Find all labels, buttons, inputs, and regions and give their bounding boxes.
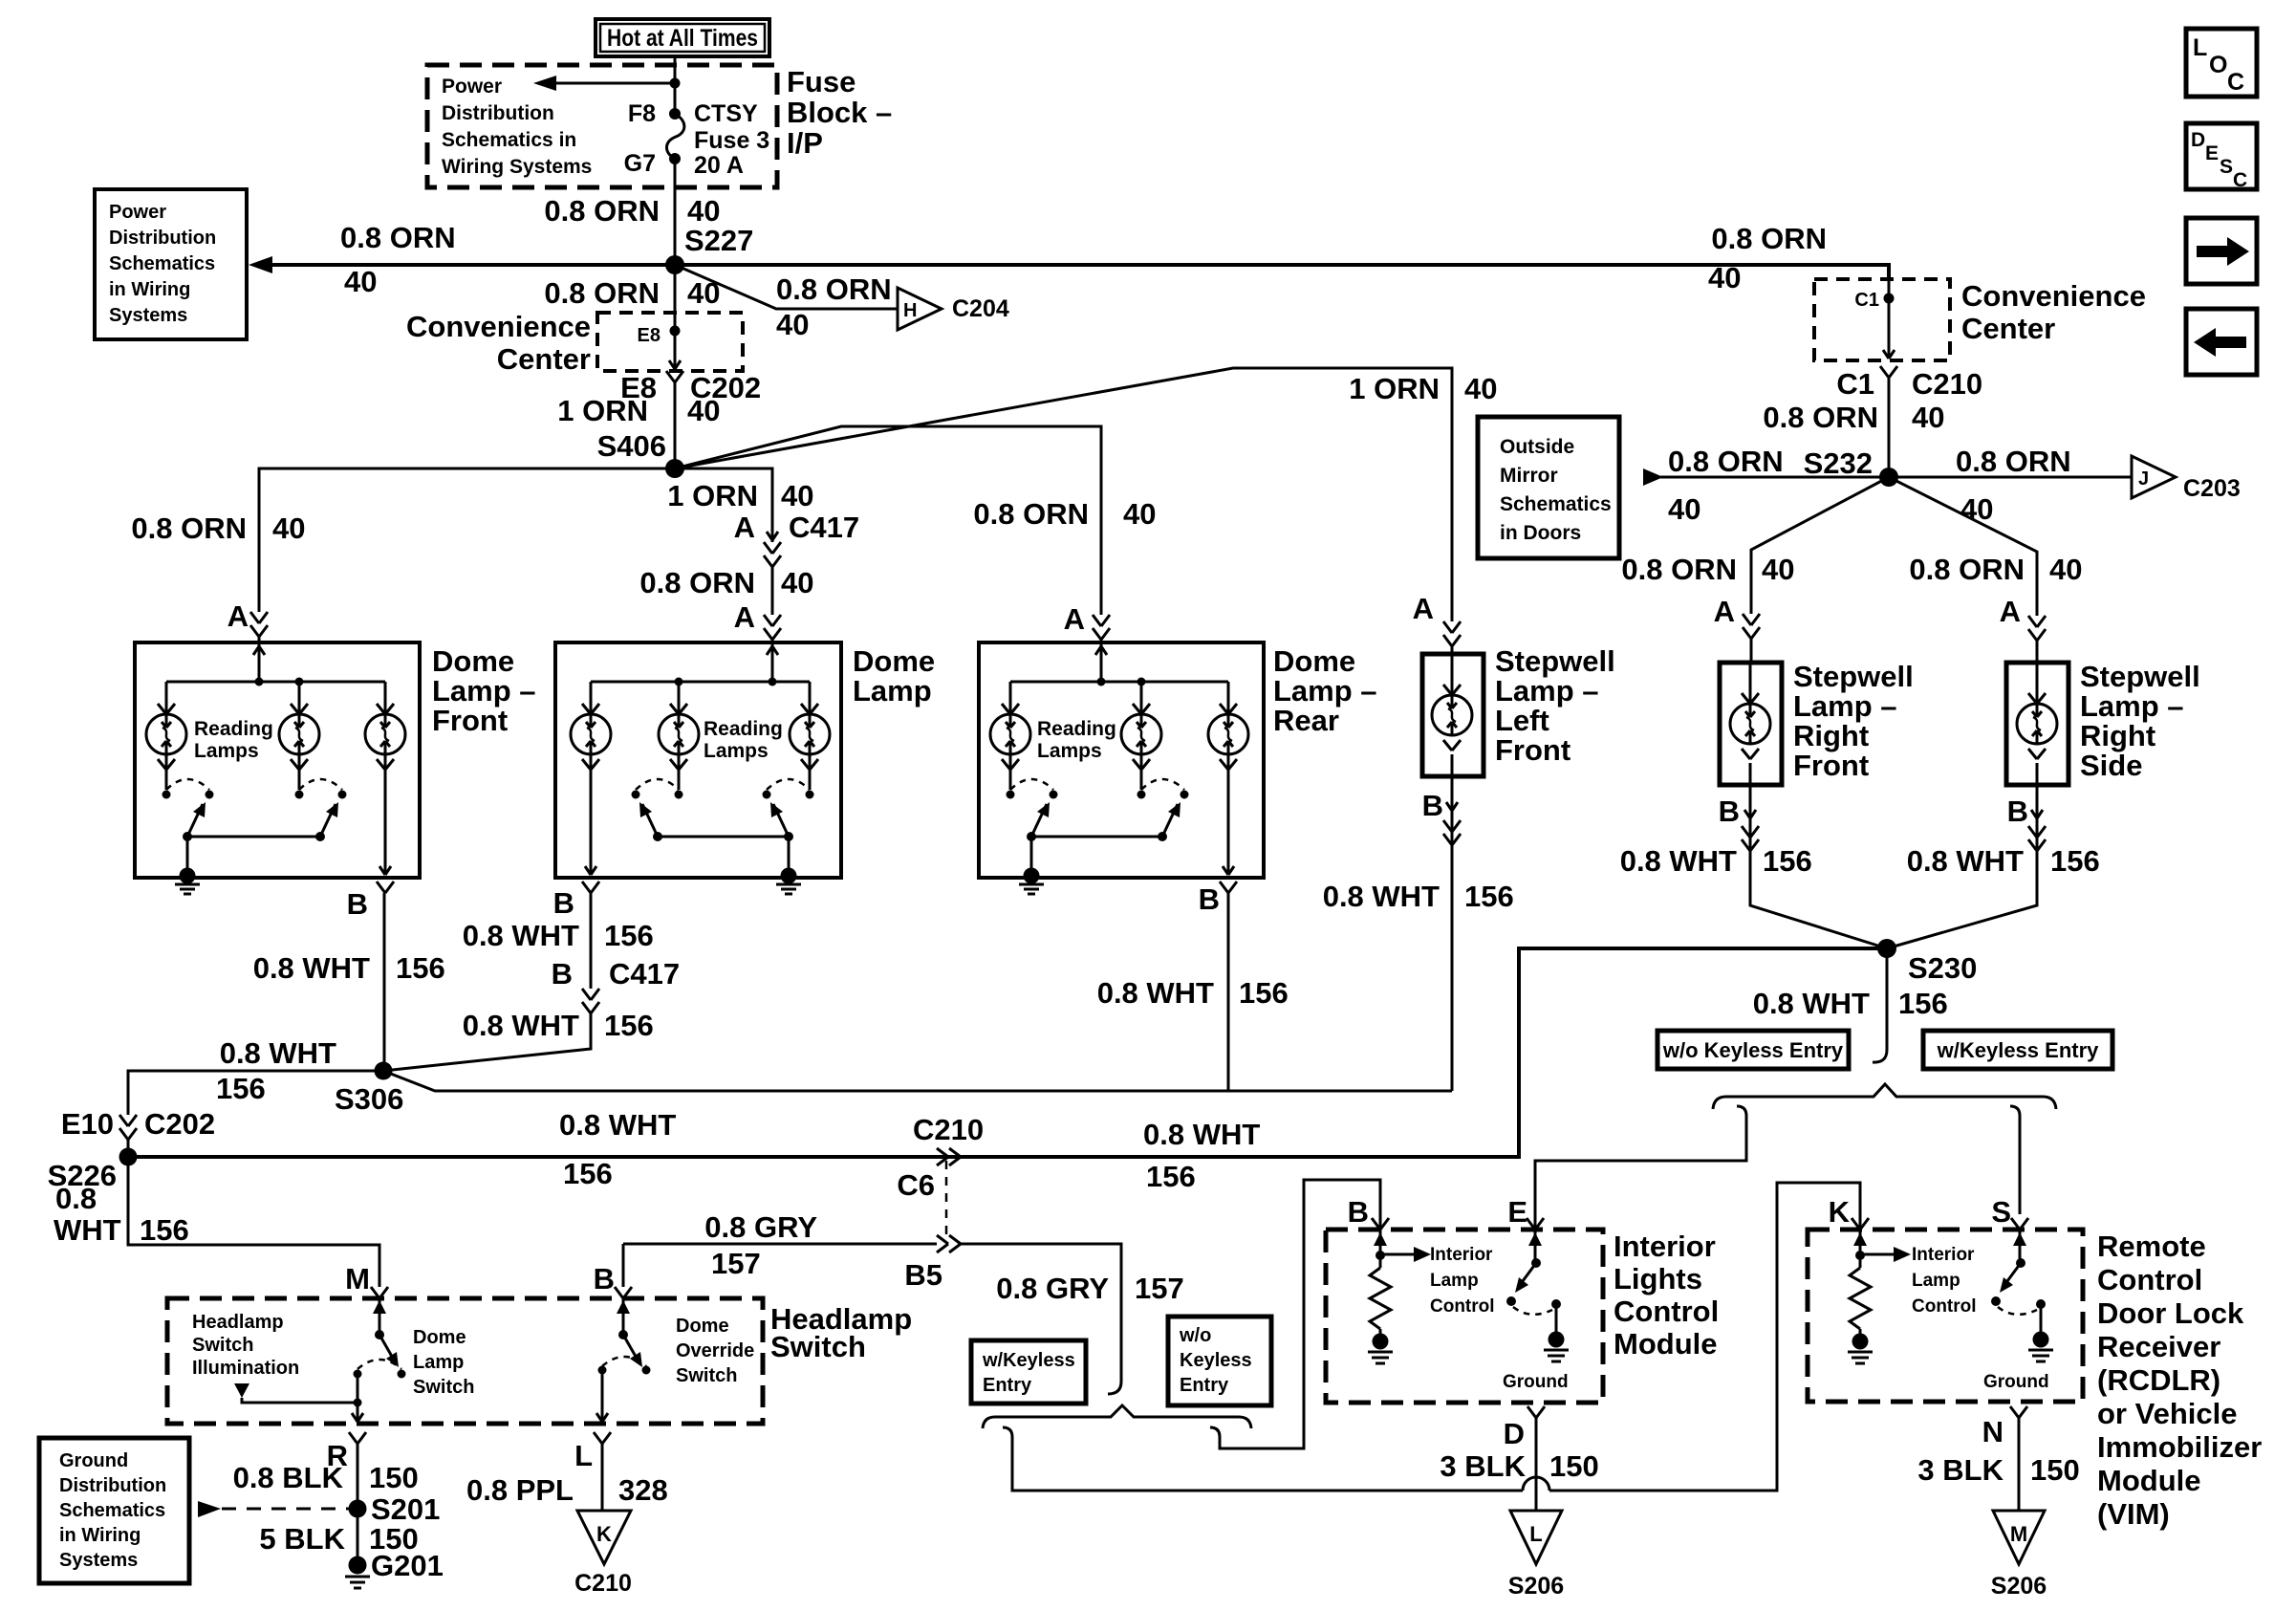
- wire: S306 left to E10 C202: [119, 1071, 383, 1157]
- switch contact for reading lamp: [763, 754, 814, 841]
- wire label 0.8 ORN 40 (right front branch): [1621, 553, 1794, 586]
- lamp bulb: [1208, 682, 1248, 770]
- svg-text:w/Keyless Entry: w/Keyless Entry: [1937, 1038, 2100, 1062]
- interior lights control module dashed box: [1326, 1230, 1603, 1403]
- lamp bulb: [279, 682, 319, 770]
- svg-text:40: 40: [687, 194, 720, 228]
- wire: bracket to ILCM pin E (w/o keyless): [1535, 1106, 1746, 1230]
- svg-text:Center: Center: [1961, 312, 2055, 345]
- svg-text:Ground: Ground: [1503, 1372, 1569, 1392]
- svg-text:Lamps: Lamps: [194, 740, 259, 762]
- svg-text:Stepwell: Stepwell: [2080, 660, 2200, 693]
- svg-text:L: L: [1529, 1522, 1542, 1546]
- wire label 0.8 ORN 40 (above S232): [1763, 401, 1944, 434]
- svg-text:A: A: [1714, 595, 1735, 628]
- wire label 0.8 ORN 40 (mirror feed): [1668, 445, 1784, 526]
- svg-text:w/Keyless: w/Keyless: [982, 1350, 1075, 1371]
- svg-text:40: 40: [1464, 372, 1497, 405]
- svg-text:M: M: [2010, 1522, 2027, 1546]
- svg-text:A: A: [1064, 602, 1085, 636]
- svg-text:Entry: Entry: [983, 1375, 1032, 1396]
- option bracket (GRY splice): [983, 1405, 1251, 1428]
- svg-text:G7: G7: [624, 150, 656, 177]
- svg-text:S306: S306: [335, 1082, 403, 1116]
- wire label 0.8 WHT 156 (stepwell right side): [1907, 844, 2100, 878]
- svg-text:C1: C1: [1836, 367, 1874, 401]
- svg-text:A: A: [1413, 592, 1434, 625]
- label Fuse Block - I/P: [787, 65, 892, 160]
- wire: 3 BLK 150 ground bus (w/keyless hook to RCDLR K): [1003, 1183, 1860, 1491]
- svg-text:Hot at All Times: Hot at All Times: [607, 25, 758, 52]
- wire: override output to pin L: [594, 1370, 611, 1511]
- label Interior Lamp Control (RCDLR): [1912, 1245, 1977, 1317]
- svg-text:Switch: Switch: [770, 1330, 866, 1363]
- svg-text:156: 156: [216, 1072, 266, 1105]
- svg-text:B: B: [1719, 795, 1740, 828]
- svg-text:Power: Power: [442, 76, 502, 98]
- svg-text:Dome: Dome: [1273, 644, 1355, 678]
- svg-text:0.8 WHT: 0.8 WHT: [1753, 987, 1870, 1020]
- option box w/o Keyless Entry: [1657, 1031, 1849, 1069]
- svg-text:Distribution: Distribution: [59, 1475, 166, 1496]
- wire: E8 through connector C202: [666, 313, 683, 468]
- svg-text:Entry: Entry: [1180, 1375, 1229, 1396]
- svg-text:C210: C210: [1912, 367, 1982, 401]
- fuse block dashed box: [427, 65, 777, 187]
- svg-text:0.8 ORN: 0.8 ORN: [544, 194, 660, 228]
- svg-text:Rear: Rear: [1273, 704, 1339, 737]
- svg-text:Schematics: Schematics: [1500, 493, 1612, 515]
- switch contact for reading lamp: [632, 754, 683, 841]
- svg-text:C: C: [2227, 69, 2244, 96]
- option bracket (keyless splice): [1713, 1084, 2056, 1109]
- connector triangle M S206: [1991, 1511, 2047, 1600]
- svg-text:in Doors: in Doors: [1500, 522, 1581, 544]
- dome lamp switch (in headlamp switch): [354, 1298, 406, 1379]
- svg-text:156: 156: [140, 1213, 189, 1247]
- svg-text:S206: S206: [1508, 1573, 1564, 1600]
- pin B stepwell left front: [1422, 776, 1461, 1091]
- svg-text:E: E: [1507, 1195, 1527, 1229]
- svg-text:Wiring Systems: Wiring Systems: [442, 156, 592, 178]
- node: junction to power distribution arrow: [670, 78, 681, 89]
- wire label 0.8 ORN 40 (right bus): [1708, 222, 1827, 294]
- svg-text:0.8: 0.8: [55, 1182, 97, 1215]
- svg-text:Interior: Interior: [1430, 1245, 1493, 1265]
- svg-text:Lamp –: Lamp –: [1793, 689, 1897, 723]
- dashed link C210 to B5: [945, 1161, 948, 1238]
- svg-text:156: 156: [604, 1009, 654, 1042]
- wire: 0.8 ORN 40 bus right from S227 to convenience center C1: [675, 265, 1889, 279]
- svg-text:3 BLK: 3 BLK: [1917, 1453, 2004, 1487]
- wire label 3 BLK 150 (ILCM): [1440, 1449, 1598, 1483]
- svg-text:Distribution: Distribution: [109, 228, 216, 249]
- svg-text:Convenience: Convenience: [1961, 279, 2146, 313]
- svg-text:Switch: Switch: [413, 1377, 474, 1398]
- svg-text:N: N: [1982, 1415, 2004, 1448]
- label Reading Lamps: [1037, 718, 1116, 762]
- stepwell lamp - left front: [1422, 654, 1484, 776]
- note box: Ground Distribution Schematics in Wiring Systems: [39, 1438, 189, 1583]
- svg-text:B5: B5: [904, 1258, 942, 1292]
- label Ground (RCDLR): [1983, 1372, 2049, 1392]
- svg-text:156: 156: [563, 1157, 613, 1190]
- svg-text:K: K: [596, 1522, 612, 1546]
- svg-text:Lamp –: Lamp –: [1273, 674, 1377, 708]
- svg-text:Schematics: Schematics: [109, 253, 215, 274]
- power label box "Hot at All Times": [596, 19, 769, 56]
- pin E ILCM: [1507, 1195, 1544, 1230]
- dashed wire to ground distribution schematics (arrow): [198, 1501, 357, 1517]
- svg-text:Ground: Ground: [1983, 1372, 2049, 1392]
- svg-text:Receiver: Receiver: [2097, 1330, 2220, 1363]
- svg-text:0.8 ORN: 0.8 ORN: [1909, 553, 2025, 586]
- svg-text:B: B: [594, 1262, 615, 1295]
- wire: fuse output 0.8 ORN 40 down to S227: [674, 159, 677, 265]
- svg-text:156: 156: [1898, 987, 1948, 1020]
- svg-text:40: 40: [1668, 492, 1700, 526]
- svg-text:D: D: [2191, 129, 2205, 151]
- connector triangle K C210: [574, 1511, 632, 1597]
- svg-text:Front: Front: [1495, 733, 1570, 767]
- svg-text:S: S: [2220, 156, 2233, 178]
- svg-text:Block –: Block –: [787, 96, 892, 129]
- svg-text:0.8 GRY: 0.8 GRY: [996, 1272, 1109, 1305]
- wire label 0.8 WHT 156 (stepwell right front): [1620, 844, 1812, 878]
- lamp bulb: [571, 682, 611, 770]
- dome lamp assembly: Dome Lamp - Rear: [979, 642, 1264, 878]
- switch contact for reading lamp: [295, 754, 347, 841]
- svg-text:0.8 ORN: 0.8 ORN: [1621, 553, 1737, 586]
- svg-text:0.8 WHT: 0.8 WHT: [463, 1009, 579, 1042]
- label Convenience Center (left): [406, 310, 591, 376]
- svg-text:Center: Center: [497, 342, 591, 376]
- svg-text:156: 156: [396, 951, 445, 985]
- option box w/Keyless Entry (lower): [971, 1340, 1086, 1404]
- wire: 0.8 GRY 157 from pin B to B5: [623, 1243, 937, 1246]
- label Reading Lamps: [704, 718, 783, 762]
- svg-text:S227: S227: [684, 224, 753, 257]
- svg-text:G201: G201: [371, 1549, 444, 1582]
- svg-text:0.8 WHT: 0.8 WHT: [1620, 844, 1737, 878]
- svg-text:1 ORN: 1 ORN: [667, 479, 758, 512]
- svg-text:Ground: Ground: [59, 1450, 128, 1471]
- svg-text:Immobilizer: Immobilizer: [2097, 1430, 2262, 1464]
- svg-text:S: S: [1991, 1195, 2011, 1229]
- connector C210 C6 on WHT line: [897, 1113, 984, 1202]
- label Convenience Center (right): [1961, 279, 2146, 345]
- svg-text:Module: Module: [2097, 1464, 2201, 1497]
- svg-text:Lights: Lights: [1614, 1262, 1702, 1295]
- wire label 0.8 GRY 157 (left): [704, 1210, 817, 1280]
- node S201: [349, 1492, 441, 1526]
- lamp bulb: [790, 682, 830, 770]
- svg-text:Schematics in: Schematics in: [442, 129, 576, 151]
- svg-text:1 ORN: 1 ORN: [557, 394, 648, 427]
- svg-text:S230: S230: [1908, 951, 1977, 985]
- wire: S406 branch down to C417 (dome lamp): [675, 468, 772, 542]
- svg-text:Schematics: Schematics: [59, 1500, 165, 1521]
- svg-text:Reading: Reading: [1037, 718, 1116, 740]
- pin A dome lamp front: [227, 599, 268, 642]
- connector C417 pin A: [734, 511, 860, 567]
- illumination feed (solid triangle tap): [234, 1383, 362, 1407]
- svg-text:156: 156: [1146, 1160, 1196, 1193]
- svg-text:0.8 WHT: 0.8 WHT: [559, 1108, 676, 1142]
- wire label 0.8 WHT 156 (below S230): [1753, 987, 1948, 1020]
- svg-text:Dome: Dome: [413, 1327, 466, 1348]
- svg-text:156: 156: [1464, 880, 1514, 913]
- svg-text:H: H: [903, 300, 917, 321]
- lamp bulb: [990, 682, 1030, 770]
- svg-text:0.8 WHT: 0.8 WHT: [1097, 976, 1214, 1010]
- svg-text:Illumination: Illumination: [192, 1358, 299, 1379]
- note box: Power Distribution Schematics in Wiring Systems: [95, 189, 247, 339]
- svg-text:(VIM): (VIM): [2097, 1497, 2170, 1531]
- connector label E10 C202: [61, 1107, 215, 1141]
- svg-text:0.8 ORN: 0.8 ORN: [131, 512, 247, 545]
- pin C1 with node: [1854, 290, 1894, 311]
- ground (case ground): [175, 837, 200, 894]
- pin L: [574, 1439, 593, 1472]
- label Interior Lights Control Module: [1614, 1230, 1719, 1361]
- svg-text:Lamps: Lamps: [1037, 740, 1102, 762]
- option box w/o Keyless Entry (lower): [1168, 1317, 1271, 1405]
- svg-text:150: 150: [369, 1461, 419, 1494]
- svg-text:0.8 WHT: 0.8 WHT: [463, 919, 579, 952]
- wire label 0.8 ORN 40 (dome front branch): [131, 512, 305, 545]
- switch contact for reading lamp: [1007, 754, 1058, 841]
- stepwell lamp - right front: [1720, 663, 1782, 785]
- svg-text:0.8 ORN: 0.8 ORN: [1763, 401, 1878, 434]
- svg-text:Interior: Interior: [1614, 1230, 1716, 1263]
- pin B ILCM: [1348, 1195, 1389, 1230]
- wire label 0.8 ORN 40 (below C417): [639, 566, 813, 599]
- wire label 0.8 WHT 156 (dome front B): [253, 951, 445, 985]
- label Headlamp Switch Illumination: [192, 1312, 299, 1379]
- wire: S226 down to headlamp switch M (0.8 WHT 156): [128, 1157, 379, 1287]
- label Stepwell Lamp - Right Side: [2080, 660, 2200, 782]
- svg-text:40: 40: [781, 566, 813, 599]
- svg-text:C202: C202: [144, 1107, 215, 1141]
- ground G201: [345, 1509, 444, 1588]
- connector label B C417: [552, 957, 681, 991]
- wire: C1 through connector C210: [1880, 279, 1897, 477]
- label Dome Lamp - Rear: [1273, 644, 1377, 737]
- svg-text:328: 328: [618, 1473, 668, 1507]
- svg-text:Lamp: Lamp: [413, 1352, 464, 1373]
- svg-text:w/o Keyless Entry: w/o Keyless Entry: [1662, 1038, 1844, 1062]
- svg-text:Override: Override: [676, 1340, 754, 1361]
- svg-text:E8: E8: [638, 325, 661, 346]
- svg-text:0.8 ORN: 0.8 ORN: [1711, 222, 1827, 255]
- node S232: [1804, 446, 1898, 487]
- svg-text:Side: Side: [2080, 749, 2142, 782]
- wire: dome rear B down to WHT bus: [1199, 882, 1228, 1091]
- svg-text:0.8 WHT: 0.8 WHT: [1143, 1118, 1260, 1151]
- wire label 0.8 ORN 40 (below S227): [544, 276, 720, 310]
- svg-text:0.8 ORN: 0.8 ORN: [1956, 445, 2071, 478]
- svg-text:Systems: Systems: [59, 1550, 138, 1571]
- pin B stepwell right front: [1719, 785, 1887, 948]
- wire: entry feed inside Dome Lamp - Rear: [1095, 642, 1107, 682]
- pin A stepwell right side: [2000, 595, 2046, 663]
- svg-text:156: 156: [604, 919, 654, 952]
- svg-text:Power: Power: [109, 202, 166, 223]
- svg-text:in Wiring: in Wiring: [59, 1525, 141, 1546]
- svg-text:B: B: [1348, 1195, 1369, 1229]
- svg-text:Fuse 3: Fuse 3: [694, 127, 769, 154]
- svg-text:L: L: [574, 1439, 593, 1472]
- svg-text:K: K: [1829, 1195, 1851, 1229]
- svg-text:0.8 ORN: 0.8 ORN: [340, 221, 456, 254]
- fuse F1 CTSY Fuse 3 20A: [666, 108, 683, 164]
- wire: S306 right bus to stepwell left B: [383, 1071, 1452, 1091]
- pin S RCDLR: [1991, 1195, 2028, 1230]
- svg-text:157: 157: [1135, 1272, 1184, 1305]
- svg-text:Remote: Remote: [2097, 1230, 2206, 1263]
- wire: S406 branch to dome lamp rear: [675, 426, 1101, 615]
- svg-text:40: 40: [1123, 497, 1156, 531]
- label Dome Lamp: [853, 644, 935, 708]
- wire label 0.8 PPL 328: [466, 1473, 668, 1507]
- svg-text:E10: E10: [61, 1107, 114, 1141]
- svg-text:C6: C6: [897, 1168, 935, 1202]
- wire: lamp output to pin B: [582, 754, 599, 893]
- nav button previous (left arrow): [2186, 309, 2257, 375]
- svg-text:156: 156: [2050, 844, 2100, 878]
- label Ground (ILCM): [1503, 1372, 1569, 1392]
- lamp bulb: [146, 682, 186, 770]
- wire label 0.8 WHT 156 (stepwell left): [1323, 880, 1514, 913]
- ground (case ground): [776, 837, 801, 894]
- wire: lamp output to pin B: [377, 754, 394, 893]
- svg-text:5 BLK: 5 BLK: [259, 1522, 345, 1556]
- wire: S230 drop to keyless splice: [1873, 948, 1887, 1062]
- nav button LOC: [2186, 29, 2257, 97]
- svg-text:B: B: [2007, 795, 2028, 828]
- connector B5: [904, 1235, 961, 1292]
- svg-text:Dome: Dome: [432, 644, 514, 678]
- svg-text:A: A: [734, 511, 755, 544]
- wire: dome front B down to S306 (0.8 WHT 156): [347, 887, 384, 1071]
- svg-text:0.8 ORN: 0.8 ORN: [973, 497, 1089, 531]
- svg-text:Switch: Switch: [192, 1335, 253, 1356]
- svg-text:Mirror: Mirror: [1500, 465, 1558, 487]
- wire: bracket to RCDLR pin S (w/keyless): [2010, 1106, 2020, 1214]
- wire: S232 to connector C203: [1889, 476, 2132, 479]
- svg-text:B: B: [553, 886, 574, 920]
- svg-text:Lamp: Lamp: [1430, 1271, 1479, 1291]
- wire: switch common link: [658, 836, 789, 838]
- wire label 1 ORN 40 (dome lamp branch): [667, 479, 813, 512]
- svg-text:S206: S206: [1991, 1573, 2047, 1600]
- svg-text:F8: F8: [628, 100, 656, 127]
- wire label 0.8 ORN 40 (right side branch): [1909, 553, 2082, 586]
- svg-text:A: A: [227, 599, 249, 633]
- wire: B5 to keyless splice hook: [961, 1244, 1121, 1394]
- svg-text:0.8 ORN: 0.8 ORN: [776, 272, 892, 306]
- pin E8 with node: [638, 325, 681, 346]
- svg-text:B: B: [1422, 789, 1443, 822]
- svg-text:(RCDLR): (RCDLR): [2097, 1363, 2220, 1397]
- svg-text:40: 40: [1912, 401, 1944, 434]
- svg-text:156: 156: [1239, 976, 1289, 1010]
- wire: switch common link: [1031, 836, 1163, 838]
- svg-text:40: 40: [2049, 553, 2082, 586]
- svg-text:Lamp –: Lamp –: [432, 674, 536, 708]
- label Reading Lamps: [194, 718, 273, 762]
- dome override switch: [598, 1298, 651, 1375]
- wire: C417 to dome lamp A: [771, 567, 774, 615]
- svg-text:WHT: WHT: [54, 1213, 121, 1247]
- svg-text:Stepwell: Stepwell: [1495, 644, 1615, 678]
- svg-text:0.8 WHT: 0.8 WHT: [1323, 880, 1440, 913]
- nav button DESC: [2186, 123, 2257, 191]
- svg-text:E: E: [2205, 142, 2219, 164]
- svg-text:3 BLK: 3 BLK: [1440, 1449, 1526, 1483]
- pin M headlamp switch: [345, 1262, 388, 1298]
- svg-text:0.8 ORN: 0.8 ORN: [639, 566, 755, 599]
- svg-text:C1: C1: [1854, 290, 1879, 311]
- svg-text:Lamp –: Lamp –: [2080, 689, 2184, 723]
- stepwell lamp - right side: [2006, 663, 2069, 785]
- connector triangle L S206: [1508, 1511, 1564, 1600]
- svg-text:40: 40: [344, 265, 377, 298]
- remote control door lock receiver dashed box: [1808, 1230, 2083, 1402]
- label Remote Control Door Lock Receiver (RCDLR) or Vehicle Immobilizer Module (VIM): [2097, 1230, 2262, 1531]
- pin R: [327, 1439, 348, 1472]
- svg-text:Convenience: Convenience: [406, 310, 591, 343]
- svg-text:Reading: Reading: [194, 718, 273, 740]
- node: bus junction dots: [255, 678, 304, 686]
- wire label 0.8 ORN 40 (above S227): [544, 194, 720, 228]
- svg-text:in Wiring: in Wiring: [109, 279, 190, 300]
- svg-text:Lamp –: Lamp –: [1495, 674, 1599, 708]
- wire: S232 to outside mirror schematics (arrow): [1643, 468, 1889, 486]
- wire label 0.8 WHT 156 (right of C210): [1143, 1118, 1260, 1193]
- wire: dome lamp B through C417 to S306: [383, 886, 599, 1071]
- headlamp switch dashed box: [167, 1298, 763, 1424]
- wire: S227 down to convenience center E8: [674, 265, 677, 313]
- svg-text:157: 157: [711, 1247, 761, 1280]
- svg-text:Headlamp: Headlamp: [192, 1312, 284, 1333]
- wire label 0.8 GRY 157 (vertical): [996, 1272, 1183, 1305]
- wire: battery feed into fuse block: [674, 56, 677, 114]
- svg-text:0.8 ORN: 0.8 ORN: [1668, 445, 1784, 478]
- connector label E8 C202: [620, 371, 761, 404]
- svg-text:1 ORN: 1 ORN: [1349, 372, 1440, 405]
- svg-text:C417: C417: [789, 511, 859, 544]
- svg-text:B: B: [1199, 882, 1220, 916]
- wire: S232 branch to stepwell right front: [1751, 477, 1889, 614]
- svg-text:S201: S201: [371, 1492, 440, 1526]
- svg-text:Reading: Reading: [704, 718, 783, 740]
- wire label 0.8 BLK 150: [233, 1461, 419, 1494]
- interior lamp control resistor (ILCM): [1368, 1230, 1431, 1363]
- wire label 1 ORN 40 (stepwell left branch): [1349, 372, 1497, 405]
- wire: internal supply bus: [166, 681, 385, 684]
- svg-text:L: L: [2193, 34, 2207, 61]
- pin A stepwell right front: [1714, 595, 1760, 663]
- svg-text:C203: C203: [2183, 475, 2241, 502]
- node: bus junction dots: [1097, 678, 1146, 686]
- switch contact for reading lamp: [1137, 754, 1189, 841]
- svg-text:O: O: [2209, 52, 2227, 78]
- pin K RCDLR: [1829, 1195, 1869, 1230]
- svg-text:A: A: [2000, 595, 2021, 628]
- wire label 1 ORN 40 (above S406): [557, 394, 720, 427]
